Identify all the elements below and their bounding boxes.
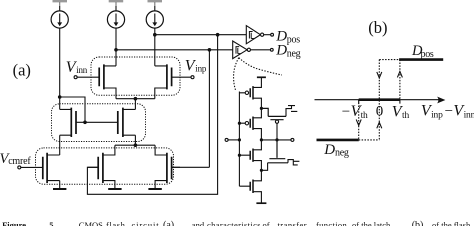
svg-text:inp: inp bbox=[431, 111, 443, 121]
svg-text:Figure: Figure bbox=[2, 220, 26, 226]
svg-text:D: D bbox=[275, 43, 287, 59]
svg-text:of the flash: of the flash bbox=[432, 220, 471, 226]
svg-text:and: and bbox=[192, 220, 205, 226]
svg-text:inp: inp bbox=[195, 63, 207, 73]
svg-text:function: function bbox=[316, 220, 348, 226]
svg-text:neg: neg bbox=[287, 49, 301, 60]
svg-text:th: th bbox=[402, 111, 409, 121]
svg-text:D: D bbox=[323, 142, 335, 158]
svg-text:inn: inn bbox=[464, 111, 474, 121]
svg-text:cmref: cmref bbox=[8, 156, 31, 167]
svg-text:(b): (b) bbox=[368, 18, 387, 37]
svg-text:5.: 5. bbox=[49, 220, 55, 226]
svg-text:flash: flash bbox=[106, 220, 126, 226]
svg-text:−: − bbox=[445, 104, 453, 120]
svg-text:of: of bbox=[263, 220, 270, 226]
svg-text:(a): (a) bbox=[163, 220, 174, 226]
svg-text:inn: inn bbox=[76, 65, 88, 75]
svg-text:CMOS: CMOS bbox=[79, 220, 103, 226]
svg-text:(a): (a) bbox=[13, 61, 31, 80]
svg-text:pos: pos bbox=[421, 49, 434, 60]
svg-text:transfer: transfer bbox=[278, 220, 308, 226]
svg-text:0: 0 bbox=[376, 104, 384, 120]
svg-text:circuit: circuit bbox=[132, 220, 160, 226]
svg-text:th: th bbox=[361, 111, 368, 121]
svg-text:characteristics: characteristics bbox=[207, 220, 261, 226]
svg-text:of the latch: of the latch bbox=[352, 220, 391, 226]
svg-text:neg: neg bbox=[335, 148, 349, 159]
svg-text:(b): (b) bbox=[412, 220, 424, 226]
svg-text:pos: pos bbox=[287, 34, 300, 45]
svg-text:−: − bbox=[342, 104, 350, 120]
